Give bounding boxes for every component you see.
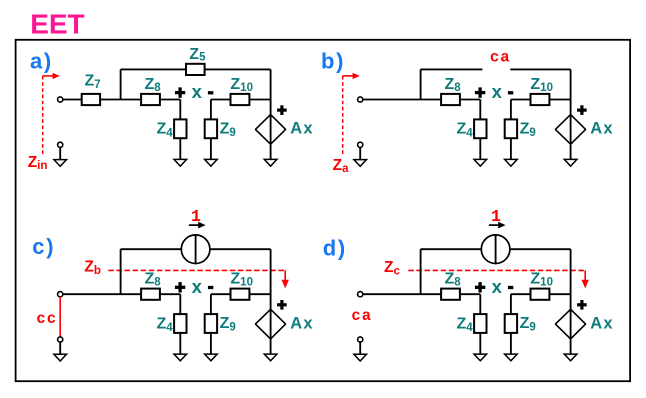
label plus Ax b xyxy=(577,105,587,115)
short-circuit red wire cc xyxy=(59,297,61,338)
probe arrow a xyxy=(43,75,53,77)
label plus d xyxy=(475,282,485,292)
dependent source Ax diamond b xyxy=(555,115,585,145)
ground Z9 d xyxy=(505,354,518,361)
wire Z8 to node-plus b xyxy=(460,99,480,101)
svg-text:Ax: Ax xyxy=(290,120,313,138)
wire node-minus to Z9 a xyxy=(210,100,212,120)
wire node-minus to Z10 c xyxy=(211,293,231,295)
wire node-minus to Z10 a xyxy=(211,99,231,101)
dashed measure line Zb xyxy=(108,269,285,271)
label minus d xyxy=(508,286,513,289)
wire top-left to Z5 xyxy=(121,68,186,70)
svg-text:b): b) xyxy=(321,48,345,73)
label plus Ax a xyxy=(277,105,287,115)
wire node-minus to Z9 b xyxy=(510,100,512,120)
svg-text:Ax: Ax xyxy=(290,314,313,332)
input terminal c xyxy=(58,292,63,297)
resistor Z10 b xyxy=(531,94,550,105)
wire input to Z7 xyxy=(63,99,82,101)
box Z9 d xyxy=(505,314,517,333)
box Z9 c xyxy=(205,314,217,333)
label plus a xyxy=(175,87,185,97)
svg-text:x: x xyxy=(492,81,503,102)
svg-text:ca: ca xyxy=(490,49,511,67)
ground stem a input xyxy=(59,147,61,159)
svg-text:ca: ca xyxy=(351,307,372,325)
ground stem d input xyxy=(359,342,361,354)
current source 1 c xyxy=(181,235,210,264)
wire input to Z8 b xyxy=(363,99,441,101)
wire node to top branch b xyxy=(420,69,422,99)
ground terminal circle a xyxy=(58,142,63,147)
svg-text:Ax: Ax xyxy=(590,314,613,332)
wire Z4 to ground d xyxy=(479,333,481,354)
direction arrow d xyxy=(489,224,499,226)
probe dashed line Za xyxy=(342,76,344,155)
ground terminal circle b xyxy=(358,142,363,147)
wire source to top-right c xyxy=(211,248,271,250)
wire Z10 to output node c xyxy=(249,293,270,295)
svg-text:a): a) xyxy=(30,48,53,73)
wire Z8 to node-plus d xyxy=(460,293,480,295)
label minus b xyxy=(508,91,513,94)
wire Z7 to Z8 xyxy=(100,99,141,101)
ground Ax a xyxy=(264,159,277,166)
wire top branch to source Ax a xyxy=(270,69,272,114)
resistor Z8 b xyxy=(441,94,460,105)
dependent source Ax diamond c xyxy=(255,309,285,339)
resistor Z10 d xyxy=(531,289,550,300)
svg-text:c): c) xyxy=(32,234,55,259)
dashed measure line Zc xyxy=(408,269,585,271)
wire node-minus to Z10 b xyxy=(511,99,531,101)
wire Ax to ground d xyxy=(570,339,572,354)
label minus c xyxy=(208,286,213,289)
ground terminal circle d xyxy=(358,337,363,342)
ground Z9 b xyxy=(505,159,518,166)
wire Z10 to output node b xyxy=(549,99,570,101)
wire node to Z4 d xyxy=(479,294,481,314)
ground input a xyxy=(54,160,67,167)
svg-text:Ax: Ax xyxy=(590,120,613,138)
wire input to Z8 d xyxy=(363,293,441,295)
capacitor-box Z4 c xyxy=(174,314,186,333)
wire top-left to source d xyxy=(421,248,481,250)
ground Z9 a xyxy=(205,159,218,166)
resistor Z8 a xyxy=(141,94,160,105)
probe arrow b xyxy=(343,75,353,77)
ground Z4 d xyxy=(474,354,487,361)
probe dashed line Zin xyxy=(42,76,44,155)
box Z9 a xyxy=(205,119,217,138)
resistor Z8 c xyxy=(141,289,160,300)
wire Ax to ground c xyxy=(270,339,272,354)
resistor Z5 xyxy=(186,64,205,75)
ground Z4 a xyxy=(174,159,187,166)
measure arrow down c xyxy=(284,270,286,281)
ground Ax c xyxy=(264,354,277,361)
input terminal a xyxy=(58,97,63,102)
wire input to Z8 c xyxy=(63,293,141,295)
ground stem b input xyxy=(359,147,361,159)
wire Z4 to ground a xyxy=(179,138,181,159)
wire source to top-right d xyxy=(511,248,571,250)
wire top-right segment b xyxy=(510,68,570,70)
current source 1 d xyxy=(481,235,510,264)
wire Ax to ground b xyxy=(570,144,572,159)
wire Z9 to ground d xyxy=(510,333,512,354)
wire node-minus to Z9 d xyxy=(510,294,512,314)
wire node to top branch c xyxy=(120,249,122,294)
ground Ax b xyxy=(564,159,577,166)
wire node to Z4 a xyxy=(179,100,181,120)
ground Z9 c xyxy=(205,354,218,361)
wire node-minus to Z9 c xyxy=(210,294,212,314)
svg-text:x: x xyxy=(192,81,203,102)
resistor Z7 xyxy=(82,94,100,105)
wire node to top branch a xyxy=(120,69,122,99)
wire Z4 to ground c xyxy=(179,333,181,354)
label plus Ax d xyxy=(577,300,587,310)
dependent source Ax diamond d xyxy=(555,309,585,339)
wire node-minus to Z10 d xyxy=(511,293,531,295)
wire top-left segment b xyxy=(421,68,483,70)
ground Ax d xyxy=(564,354,577,361)
resistor Z10 c xyxy=(231,289,250,300)
box Z9 b xyxy=(505,119,517,138)
wire top branch to source Ax c xyxy=(270,249,272,309)
svg-text:x: x xyxy=(192,276,203,297)
wire Z9 to ground b xyxy=(510,138,512,159)
input terminal d xyxy=(358,292,363,297)
label plus b xyxy=(475,87,485,97)
label plus Ax c xyxy=(277,300,287,310)
dependent source Ax diamond a xyxy=(255,115,285,145)
measure arrow down d xyxy=(584,270,586,281)
ground Z4 c xyxy=(174,354,187,361)
resistor Z10 a xyxy=(231,94,250,105)
label minus a xyxy=(208,91,213,94)
wire top branch to source Ax d xyxy=(570,249,572,309)
svg-text:d): d) xyxy=(323,236,347,261)
wire Z4 to ground b xyxy=(479,138,481,159)
resistor Z8 d xyxy=(441,289,460,300)
ground terminal circle c xyxy=(58,337,63,342)
capacitor-box Z4 b xyxy=(474,119,486,138)
wire Z5 to right branch xyxy=(205,68,271,70)
wire node to Z4 b xyxy=(479,100,481,120)
wire Z8 to node-plus c xyxy=(160,293,180,295)
direction arrow c xyxy=(189,224,199,226)
ground input d xyxy=(354,354,367,361)
svg-text:cc: cc xyxy=(36,310,57,328)
svg-text:EET: EET xyxy=(30,9,84,40)
wire Z9 to ground a xyxy=(210,138,212,159)
ground stem c input xyxy=(59,342,61,354)
ground input b xyxy=(354,160,367,167)
input terminal b xyxy=(358,97,363,102)
wire Z9 to ground c xyxy=(210,333,212,354)
wire top-left to source c xyxy=(121,248,181,250)
capacitor-box Z4 a xyxy=(174,119,186,138)
svg-text:x: x xyxy=(492,276,503,297)
wire top branch to source Ax b xyxy=(570,69,572,114)
wire Z8 to node-plus a xyxy=(160,99,180,101)
ground Z4 b xyxy=(474,159,487,166)
ground input c xyxy=(54,354,67,361)
wire Z10 to output node a xyxy=(249,99,270,101)
label plus c xyxy=(175,282,185,292)
wire node to Z4 c xyxy=(179,294,181,314)
wire Z10 to output node d xyxy=(549,293,570,295)
wire node to top branch d xyxy=(420,249,422,294)
wire Ax to ground a xyxy=(270,144,272,159)
capacitor-box Z4 d xyxy=(474,314,486,333)
